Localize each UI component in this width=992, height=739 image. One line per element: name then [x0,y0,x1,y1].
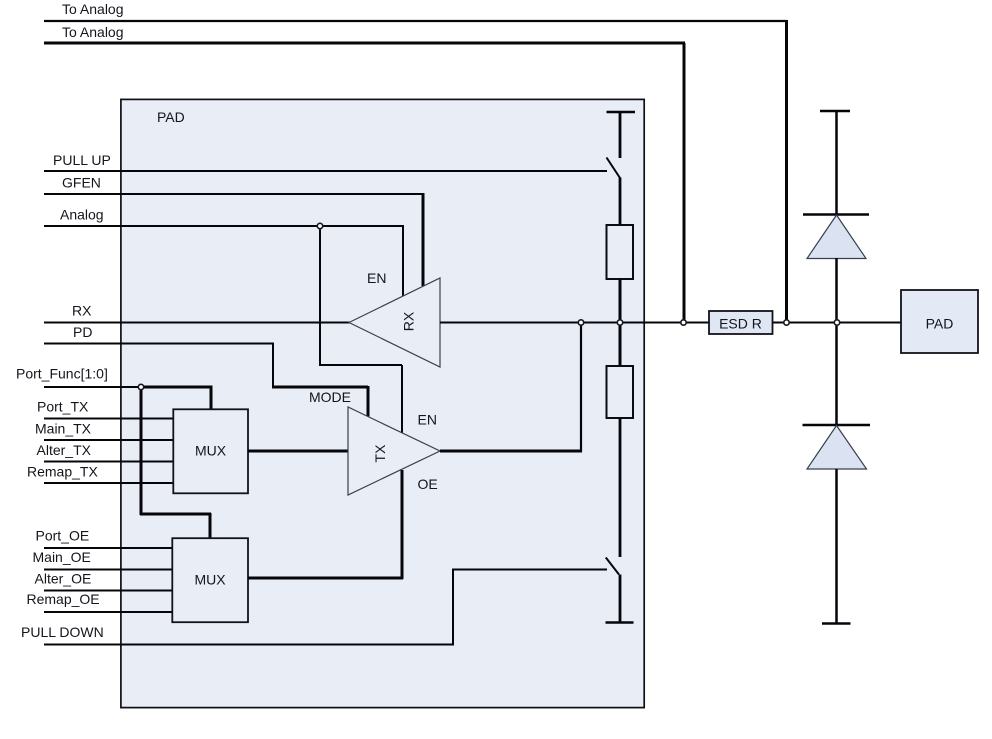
wire Port_Func MUX1 select drop [210,386,213,410]
wire PULL UP [44,170,607,172]
wire R2 to switch S2 [619,418,622,557]
svg-text:ESD R: ESD R [719,316,762,332]
node resistor chain junction [617,320,622,325]
svg-text:OE: OE [418,476,438,492]
diode D2 (lower clamp) [807,426,867,470]
wire Analog horizontal [44,225,403,227]
resistor R1 (pull-up) [607,225,634,279]
svg-text:MODE: MODE [309,389,351,405]
node To Analog upper junction [784,320,789,325]
wire D1 to pad net [835,258,838,323]
svg-text:PULL DOWN: PULL DOWN [21,624,104,640]
wire pad net to diode D2 [835,323,838,426]
wire Analog branch horizontal to TX EN [319,364,402,366]
upper clamp rail terminal bar [820,110,850,112]
wire GFEN horizontal [44,193,424,195]
wire TX output riser [580,323,582,453]
diode D1 cathode bar [803,213,869,215]
node diode chain junction [834,320,839,325]
svg-text:PULL UP: PULL UP [53,152,111,168]
svg-text:Remap_OE: Remap_OE [27,591,100,607]
PAD cell boundary box [121,99,644,707]
svg-text:PAD: PAD [157,109,185,125]
wire Analog branch drop to TX EN [401,365,403,434]
external PAD box [901,290,978,353]
driver TX (points right) [348,407,440,495]
wire Port_Func vertical bus [140,386,143,516]
wire rail to diode D1 [835,111,838,215]
buffer RX (receiver, points left) [349,278,440,367]
pull-up rail terminal bar [607,111,636,113]
wire Port_Func to MUX2 select [140,513,211,516]
svg-text:Alter_OE: Alter_OE [35,571,92,587]
wire MUX2 output [248,577,403,580]
svg-text:Remap_TX: Remap_TX [27,464,98,480]
svg-text:MUX: MUX [194,572,226,588]
wire Analog drop to RX EN [402,225,404,296]
wire MUX1 output [248,450,349,453]
wire Analog branch down from node [319,226,321,366]
node To Analog lower junction [681,320,686,325]
node Analog junction [317,223,322,228]
wire Alter_OE [44,590,173,592]
svg-text:EN: EN [367,270,386,286]
wire switch to resistor R1 [619,178,622,226]
wire D2 to lower rail [835,469,838,623]
wire Port_TX [44,418,174,420]
lower clamp rail terminal bar [822,622,851,624]
svg-text:Port_Func[1:0]: Port_Func[1:0] [16,366,108,382]
svg-text:RX: RX [401,311,417,331]
svg-text:Main_TX: Main_TX [35,421,92,437]
wire To Analog (lower) vertical drop [683,43,686,323]
svg-text:Alter_TX: Alter_TX [37,442,92,458]
svg-text:GFEN: GFEN [62,175,101,191]
wire Remap_OE [44,611,173,613]
svg-text:Port_TX: Port_TX [37,399,89,415]
svg-text:TX: TX [372,444,388,463]
svg-text:Main_OE: Main_OE [33,549,91,565]
svg-text:MUX: MUX [195,443,227,459]
wire MODE drop to TX [367,386,370,418]
wire MUX2 output riser to TX OE [401,470,404,579]
resistor ESD R box [709,311,773,334]
wire To Analog (upper) horizontal [44,20,787,22]
svg-text:To Analog: To Analog [62,1,124,17]
wire main pad net (RX side to ESD R) [440,322,709,324]
mux U1 (TX data mux) [173,409,248,493]
resistor R2 (pull-down) [607,366,634,418]
diode D2 cathode bar [803,424,871,426]
wire PULL DOWN [44,570,607,645]
wire Main_OE [44,569,173,571]
wire Remap_TX [44,482,174,484]
svg-text:RX: RX [72,303,92,319]
wire R1 to main net [619,279,622,323]
wire main pad net (ESD R to PAD) [772,322,901,324]
pull-down rail terminal bar [606,621,634,623]
wire Port_Func to MUX1 select [141,386,212,389]
node Port_Func junction [138,384,143,389]
wire Port_Func horizontal [44,386,141,388]
wire switch S2 to rail [619,575,622,623]
wire Port_OE [44,547,173,549]
svg-text:EN: EN [418,412,437,428]
svg-text:PD: PD [73,324,92,340]
node TX output junction [578,320,583,325]
wire PD horizontal and bend [44,344,273,388]
wire Main_TX [44,439,174,441]
wire To Analog (upper) vertical drop [785,20,788,323]
wire rail to switch [619,112,622,158]
wire To Analog (lower) horizontal [44,42,685,45]
svg-text:PAD: PAD [926,316,954,332]
switch S2 (pull-down) lever [606,558,619,575]
wire main net to resistor R2 [619,323,622,367]
wire PD MODE horizontal [272,386,368,389]
svg-text:Analog: Analog [60,207,104,223]
switch S1 (pull-up) lever [607,158,621,179]
mux U2 (OE mux) [172,538,248,622]
svg-text:To Analog: To Analog [62,24,124,40]
diode D1 (upper clamp) [807,215,866,259]
wire TX output horizontal [440,450,582,453]
svg-text:Port_OE: Port_OE [36,528,90,544]
wire GFEN drop to RX enable [422,193,425,286]
wire Alter_TX [44,461,174,463]
wire RX output [44,322,350,324]
wire Port_Func MUX2 select drop [209,513,212,538]
